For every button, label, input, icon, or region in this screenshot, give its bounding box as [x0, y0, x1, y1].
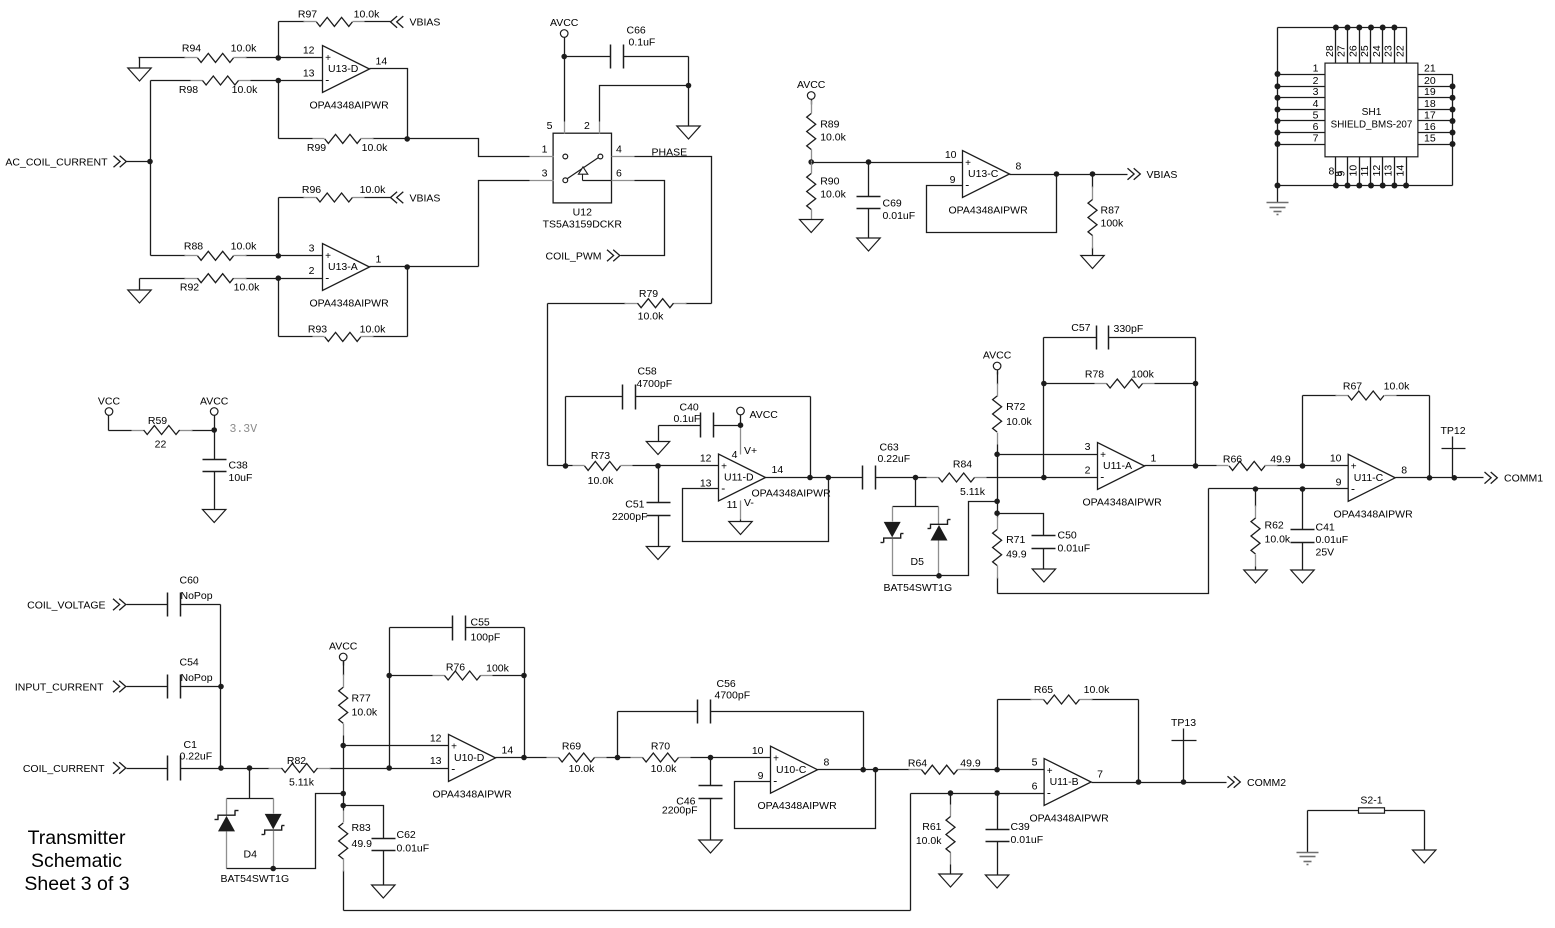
- pin 20: [1418, 75, 1453, 87]
- wire: [370, 69, 408, 139]
- junction: [404, 264, 410, 270]
- svg-text:10.0k: 10.0k: [234, 282, 260, 294]
- svg-text:8: 8: [824, 756, 830, 768]
- svg-text:R87: R87: [1101, 205, 1120, 217]
- capacitor C51: [612, 466, 671, 547]
- svg-text:8: 8: [1401, 464, 1407, 476]
- junction: [1333, 183, 1339, 189]
- ground: [1032, 569, 1055, 582]
- op-amp U13-C: [949, 151, 1029, 217]
- junction: [1391, 25, 1397, 31]
- capacitor C62: [372, 829, 430, 885]
- junction: [708, 755, 714, 761]
- svg-text:TP12: TP12: [1441, 425, 1466, 437]
- svg-text:COMM1: COMM1: [1504, 473, 1543, 485]
- wire: [1138, 700, 1140, 783]
- ground: [128, 58, 151, 82]
- svg-text:V+: V+: [744, 445, 757, 457]
- svg-text:2200pF: 2200pF: [662, 805, 698, 817]
- wire: [1396, 477, 1484, 479]
- svg-text:R65: R65: [1034, 684, 1053, 696]
- svg-text:V-: V-: [744, 497, 754, 509]
- svg-text:R62: R62: [1265, 520, 1284, 532]
- svg-text:2: 2: [1313, 75, 1319, 87]
- junction: [1193, 381, 1199, 387]
- wire: [659, 453, 719, 466]
- wire: [998, 489, 1209, 594]
- svg-text:5: 5: [1032, 757, 1038, 769]
- resistor R99: [279, 134, 408, 154]
- pin 19: [1418, 86, 1453, 98]
- pin 22: [1394, 28, 1406, 64]
- junction: [270, 866, 276, 872]
- junction: [218, 684, 224, 690]
- capacitor C60: [168, 575, 221, 617]
- wire: [1277, 28, 1279, 186]
- junction: [994, 790, 1000, 796]
- svg-text:R67: R67: [1343, 381, 1362, 393]
- svg-text:49.9: 49.9: [1270, 454, 1291, 466]
- svg-text:10.0k: 10.0k: [360, 184, 386, 196]
- svg-text:9: 9: [1336, 171, 1348, 177]
- port VBIAS: [1128, 168, 1178, 181]
- op-amp U10-C: [758, 746, 838, 812]
- junction: [1450, 130, 1456, 136]
- svg-text:0.1uF: 0.1uF: [629, 37, 656, 49]
- svg-text:10.0k: 10.0k: [360, 323, 386, 335]
- junction: [913, 475, 919, 481]
- pin 3: [1278, 86, 1325, 98]
- junction: [615, 755, 621, 761]
- svg-text:COIL_CURRENT: COIL_CURRENT: [23, 763, 105, 775]
- wire: [1010, 174, 1128, 176]
- wire: [998, 514, 1044, 536]
- svg-text:100pF: 100pF: [471, 632, 501, 644]
- svg-text:4: 4: [1313, 98, 1319, 110]
- svg-text:16: 16: [1424, 121, 1436, 133]
- svg-text:D4: D4: [244, 849, 258, 861]
- svg-text:U13-A: U13-A: [328, 261, 358, 273]
- junction: [386, 673, 392, 679]
- junction: [1345, 183, 1351, 189]
- svg-text:C38: C38: [229, 460, 248, 472]
- ground: [800, 220, 823, 233]
- svg-text:14: 14: [376, 56, 388, 68]
- port COIL_VOLTAGE: [27, 599, 167, 612]
- ground: [729, 522, 752, 535]
- svg-text:12: 12: [430, 732, 442, 744]
- resistor R77: [339, 662, 378, 746]
- junction: [386, 765, 392, 771]
- op-amp U11-C: [1334, 454, 1414, 520]
- svg-text:49.9: 49.9: [352, 838, 373, 850]
- junction: [1391, 183, 1397, 189]
- junction: [1380, 183, 1386, 189]
- capacitor C55: [390, 616, 525, 644]
- svg-text:COIL_PWM: COIL_PWM: [545, 251, 601, 263]
- svg-text:R96: R96: [302, 184, 321, 196]
- svg-text:10.0k: 10.0k: [231, 43, 257, 55]
- junction: [1275, 118, 1281, 124]
- pin 14: [1394, 157, 1406, 186]
- test point TP12: [1441, 425, 1466, 478]
- ground: [1244, 570, 1267, 583]
- pin 26: [1348, 28, 1360, 64]
- op-amp U10-D: [433, 734, 514, 800]
- junction: [561, 54, 567, 60]
- svg-text:OPA4348AIPWR: OPA4348AIPWR: [310, 100, 390, 112]
- wire: [408, 139, 530, 157]
- wire: [407, 267, 409, 337]
- svg-text:SH1: SH1: [1362, 107, 1382, 118]
- wire: [1302, 396, 1304, 466]
- junction: [276, 78, 282, 84]
- wire: [389, 628, 391, 769]
- ground: [1291, 570, 1314, 583]
- svg-text:OPA4348AIPWR: OPA4348AIPWR: [758, 800, 838, 812]
- resistor R93: [279, 323, 408, 341]
- svg-text:0.01uF: 0.01uF: [883, 210, 916, 222]
- diode D5: [881, 478, 953, 595]
- svg-text:C40: C40: [680, 402, 699, 414]
- svg-text:+: +: [721, 461, 727, 472]
- svg-text:10.0k: 10.0k: [1384, 381, 1410, 393]
- svg-text:22: 22: [1394, 45, 1406, 57]
- svg-text:VBIAS: VBIAS: [1147, 169, 1178, 181]
- svg-text:C1: C1: [184, 739, 198, 751]
- svg-text:R99: R99: [307, 142, 326, 154]
- svg-text:5.11k: 5.11k: [960, 486, 986, 498]
- wire: [997, 700, 999, 770]
- wire: [997, 455, 999, 514]
- wire: [998, 441, 1098, 454]
- wire: [711, 745, 771, 758]
- capacitor C41: [1291, 489, 1349, 571]
- wire: [1278, 185, 1453, 187]
- svg-text:R61: R61: [922, 821, 941, 833]
- svg-text:R89: R89: [820, 119, 839, 131]
- wire: [344, 755, 449, 769]
- junction: [1090, 171, 1096, 177]
- svg-text:12: 12: [303, 45, 315, 57]
- svg-text:14: 14: [1394, 165, 1406, 177]
- svg-text:R70: R70: [651, 740, 670, 752]
- wire: [1209, 476, 1349, 488]
- svg-text:100k: 100k: [1131, 369, 1155, 381]
- svg-text:10.0k: 10.0k: [232, 84, 258, 96]
- op-amp U11-D: [700, 454, 784, 501]
- svg-text:+: +: [451, 742, 457, 753]
- svg-text:13: 13: [303, 67, 315, 79]
- port INPUT_CURRENT: [15, 681, 168, 694]
- svg-text:R83: R83: [352, 822, 371, 834]
- junction: [994, 499, 1000, 505]
- svg-text:10.0k: 10.0k: [820, 189, 846, 201]
- svg-text:R98: R98: [179, 84, 198, 96]
- svg-text:14: 14: [502, 745, 514, 757]
- wire: [150, 81, 152, 256]
- resistor R82: [250, 755, 344, 789]
- svg-text:Sheet 3 of 3: Sheet 3 of 3: [24, 873, 129, 895]
- junction: [404, 136, 410, 142]
- wire: [1452, 75, 1454, 186]
- ground: [985, 875, 1008, 888]
- svg-text:C58: C58: [638, 366, 657, 378]
- svg-text:23: 23: [1383, 45, 1395, 57]
- svg-text:COIL_VOLTAGE: COIL_VOLTAGE: [27, 600, 105, 612]
- ground: [1413, 850, 1436, 863]
- ground: [372, 885, 395, 898]
- svg-text:+: +: [325, 53, 331, 64]
- resistor R96: [279, 184, 391, 202]
- wire: [279, 265, 323, 279]
- svg-text:15: 15: [1424, 132, 1436, 144]
- junction: [1275, 83, 1281, 89]
- junction: [1345, 25, 1351, 31]
- ground: [1081, 256, 1104, 269]
- svg-text:Transmitter: Transmitter: [28, 827, 126, 849]
- svg-text:COMM2: COMM2: [1247, 777, 1286, 789]
- ground: [646, 547, 669, 560]
- wire: [370, 266, 479, 268]
- svg-text:TP13: TP13: [1171, 717, 1196, 729]
- svg-text:0.22uF: 0.22uF: [878, 453, 911, 465]
- svg-text:AVCC: AVCC: [329, 640, 358, 652]
- svg-text:100k: 100k: [486, 663, 510, 675]
- svg-text:VBIAS: VBIAS: [410, 192, 441, 204]
- port COIL_CURRENT: [23, 762, 168, 775]
- wire: [547, 304, 549, 466]
- junction: [1054, 171, 1060, 177]
- wire: [1429, 396, 1431, 478]
- svg-text:U12: U12: [573, 206, 592, 218]
- wire: [279, 243, 323, 256]
- svg-text:C51: C51: [625, 499, 644, 511]
- resistor R98: [151, 76, 279, 96]
- power AVCC: [329, 640, 358, 665]
- svg-text:5.11k: 5.11k: [289, 776, 315, 788]
- svg-text:R76: R76: [446, 662, 465, 674]
- svg-text:7: 7: [1097, 769, 1103, 781]
- wire: [524, 628, 526, 758]
- svg-text:+: +: [1351, 462, 1357, 473]
- svg-text:+: +: [965, 158, 971, 169]
- svg-text:3: 3: [1085, 441, 1091, 453]
- svg-text:U11-B: U11-B: [1050, 776, 1079, 788]
- wire: [911, 781, 1045, 794]
- pin 11 V-: [727, 497, 755, 522]
- junction: [276, 55, 282, 61]
- port VCC: [98, 396, 121, 431]
- svg-text:R92: R92: [180, 282, 199, 294]
- svg-text:0.1uF: 0.1uF: [674, 413, 701, 425]
- svg-text:C66: C66: [627, 25, 646, 37]
- junction: [147, 159, 153, 165]
- svg-text:27: 27: [1336, 45, 1348, 57]
- wire: [278, 279, 280, 337]
- wire: [343, 746, 345, 806]
- svg-text:3.3V: 3.3V: [230, 423, 258, 436]
- svg-text:OPA4348AIPWR: OPA4348AIPWR: [433, 788, 513, 800]
- junction: [1275, 141, 1281, 147]
- junction: [340, 803, 346, 809]
- svg-text:OPA4348AIPWR: OPA4348AIPWR: [1083, 497, 1163, 509]
- pin 15: [1418, 132, 1453, 144]
- svg-text:5: 5: [1313, 109, 1319, 121]
- op-amp U13-D: [310, 46, 390, 112]
- wire: [344, 910, 911, 912]
- svg-text:4: 4: [616, 144, 622, 156]
- connector SH1: [1325, 63, 1418, 157]
- resistor R88: [151, 241, 279, 261]
- junction: [521, 755, 527, 761]
- svg-text:13: 13: [700, 478, 712, 490]
- pin 11: [1359, 157, 1371, 186]
- wire: [274, 794, 344, 869]
- wire: [735, 770, 876, 829]
- junction: [1450, 118, 1456, 124]
- svg-text:C50: C50: [1058, 530, 1077, 542]
- capacitor C58: [566, 366, 811, 410]
- svg-text:25V: 25V: [1316, 547, 1335, 559]
- svg-text:100k: 100k: [1101, 218, 1125, 230]
- svg-text:0.01uF: 0.01uF: [1316, 534, 1349, 546]
- svg-text:U11-A: U11-A: [1103, 460, 1132, 472]
- svg-text:AVCC: AVCC: [797, 79, 826, 91]
- wire: [1195, 338, 1197, 466]
- svg-text:R59: R59: [148, 415, 167, 427]
- svg-text:4700pF: 4700pF: [637, 378, 673, 390]
- svg-text:R72: R72: [1006, 401, 1025, 413]
- ground: [677, 86, 700, 140]
- svg-text:10: 10: [752, 745, 764, 757]
- svg-text:1: 1: [542, 144, 548, 156]
- junction: [1368, 183, 1374, 189]
- svg-text:10.0k: 10.0k: [1006, 416, 1032, 428]
- svg-text:2: 2: [584, 120, 590, 132]
- power AVCC: [200, 396, 229, 431]
- title: [24, 827, 129, 895]
- svg-text:C54: C54: [180, 657, 199, 669]
- svg-text:AC_COIL_CURRENT: AC_COIL_CURRENT: [5, 157, 108, 169]
- junction: [1275, 107, 1281, 113]
- resistor R94: [139, 43, 279, 63]
- junction: [1275, 183, 1281, 189]
- svg-text:2200pF: 2200pF: [612, 511, 648, 523]
- junction: [1300, 486, 1306, 492]
- svg-text:0.22uF: 0.22uF: [180, 751, 213, 763]
- svg-text:9: 9: [1336, 476, 1342, 488]
- capacitor C57: [1044, 322, 1196, 349]
- capacitor C66: [565, 25, 689, 69]
- svg-text:10.0k: 10.0k: [1265, 534, 1291, 546]
- svg-text:49.9: 49.9: [960, 758, 981, 770]
- svg-text:U13-C: U13-C: [968, 168, 999, 180]
- svg-text:10.0k: 10.0k: [638, 311, 664, 323]
- svg-text:R66: R66: [1223, 454, 1242, 466]
- port COMM1: [1485, 472, 1544, 485]
- ground: [128, 279, 151, 304]
- junction: [1450, 83, 1456, 89]
- pin 16: [1418, 121, 1453, 133]
- junction: [994, 767, 1000, 773]
- svg-text:C41: C41: [1316, 522, 1335, 534]
- wire: [220, 605, 222, 769]
- svg-text:U10-C: U10-C: [776, 764, 807, 776]
- svg-text:10.0k: 10.0k: [916, 835, 942, 847]
- svg-text:10uF: 10uF: [229, 472, 253, 484]
- svg-text:C63: C63: [880, 442, 899, 454]
- junction: [1300, 463, 1306, 469]
- resistor R69: [496, 740, 618, 775]
- junction: [1380, 25, 1386, 31]
- capacitor C63: [863, 442, 916, 490]
- junction: [1333, 25, 1339, 31]
- wire: [278, 22, 280, 58]
- junction: [1450, 95, 1456, 101]
- junction: [1356, 183, 1362, 189]
- svg-text:R78: R78: [1085, 369, 1104, 381]
- svg-text:TS5A3159DCKR: TS5A3159DCKR: [543, 219, 623, 231]
- wire: [279, 67, 323, 80]
- svg-text:10.0k: 10.0k: [651, 763, 677, 775]
- svg-text:VBIAS: VBIAS: [410, 17, 441, 29]
- switch S2-1: [1308, 795, 1425, 814]
- op-amp U11-B: [1030, 759, 1110, 825]
- svg-text:R79: R79: [639, 288, 658, 300]
- svg-text:U10-D: U10-D: [454, 752, 485, 764]
- svg-text:C55: C55: [471, 617, 490, 629]
- svg-text:1: 1: [1313, 62, 1319, 74]
- junction: [211, 427, 217, 433]
- svg-text:AVCC: AVCC: [550, 17, 579, 29]
- svg-text:18: 18: [1424, 98, 1436, 110]
- svg-text:C62: C62: [397, 829, 416, 841]
- pin 18: [1418, 98, 1453, 110]
- svg-text:NoPop: NoPop: [181, 672, 213, 684]
- pin 28: [1324, 28, 1336, 64]
- junction: [521, 673, 527, 679]
- junction: [563, 463, 569, 469]
- junction: [1181, 779, 1187, 785]
- junction: [808, 159, 814, 165]
- resistor R65: [998, 684, 1139, 704]
- svg-text:1: 1: [1151, 453, 1157, 465]
- junction: [873, 767, 879, 773]
- junction: [276, 253, 282, 259]
- svg-text:10.0k: 10.0k: [362, 142, 388, 154]
- svg-text:3: 3: [1313, 86, 1319, 98]
- junction: [1275, 130, 1281, 136]
- junction: [1136, 779, 1142, 785]
- port COIL_PWM: [545, 181, 664, 263]
- resistor R66: [1145, 454, 1303, 471]
- svg-text:10.0k: 10.0k: [231, 241, 257, 253]
- svg-text:C69: C69: [883, 198, 902, 210]
- svg-text:R97: R97: [298, 9, 317, 21]
- port VBIAS: [391, 16, 441, 29]
- svg-text:U13-D: U13-D: [328, 63, 359, 75]
- wire: [479, 181, 530, 267]
- diode D4: [215, 769, 290, 886]
- svg-text:R88: R88: [184, 241, 203, 253]
- wire: [812, 149, 963, 163]
- wire: [927, 175, 1057, 233]
- wire: [279, 45, 323, 58]
- junction: [1427, 475, 1433, 481]
- svg-text:C56: C56: [717, 678, 736, 690]
- pin 12: [1371, 157, 1383, 186]
